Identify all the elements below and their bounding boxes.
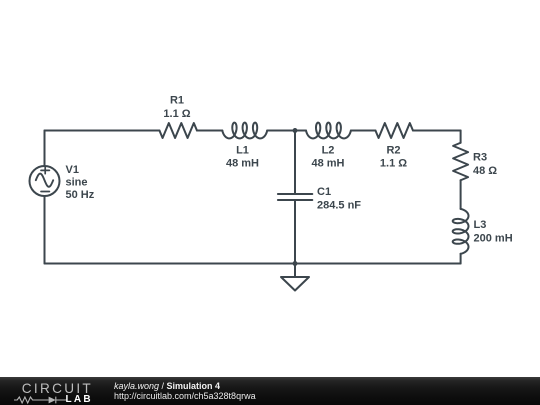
voltage source V1 bbox=[30, 166, 60, 196]
node junction top bbox=[293, 128, 298, 133]
ground bbox=[281, 264, 309, 291]
logo CIRCUIT bbox=[22, 375, 102, 403]
wire right rail upper bbox=[460, 131, 462, 143]
wire C1 to bottom bbox=[294, 200, 296, 264]
svg-text:R2: R2 bbox=[386, 145, 400, 157]
footer text line 1 bbox=[114, 382, 220, 391]
wire node to C1 bbox=[294, 131, 296, 195]
svg-text:200 mH: 200 mH bbox=[474, 233, 513, 245]
wire L3 to bottom corner bbox=[460, 254, 462, 264]
resistor R3 bbox=[453, 143, 468, 181]
svg-text:L3: L3 bbox=[474, 219, 487, 231]
node junction bottom bbox=[293, 261, 298, 266]
inductor L2 bbox=[306, 123, 351, 139]
svg-text:48 mH: 48 mH bbox=[226, 158, 259, 170]
capacitor C1 bbox=[278, 194, 312, 200]
footer text line 2 bbox=[114, 392, 256, 401]
wire R3 to L3 bbox=[460, 180, 462, 209]
svg-text:L2: L2 bbox=[322, 145, 335, 157]
logo LAB bbox=[66, 395, 93, 405]
svg-text:1.1 Ω: 1.1 Ω bbox=[163, 108, 190, 120]
svg-text:1.1 Ω: 1.1 Ω bbox=[380, 158, 407, 170]
resistor R2 bbox=[375, 123, 413, 138]
svg-text:284.5 nF: 284.5 nF bbox=[317, 199, 361, 211]
svg-text:V1: V1 bbox=[66, 164, 79, 176]
svg-text:R3: R3 bbox=[473, 151, 487, 163]
svg-text:R1: R1 bbox=[170, 95, 184, 107]
svg-text:48 Ω: 48 Ω bbox=[473, 165, 497, 177]
svg-text:L1: L1 bbox=[236, 145, 249, 157]
wire L1 to node bbox=[267, 130, 306, 132]
wire left rail lower bbox=[44, 196, 46, 264]
wire R2 to right corner bbox=[413, 130, 461, 132]
svg-text:C1: C1 bbox=[317, 186, 331, 198]
svg-text:50 Hz: 50 Hz bbox=[66, 189, 95, 201]
inductor L1 bbox=[222, 123, 267, 139]
wire left rail upper bbox=[44, 131, 46, 167]
wire bottom rail bbox=[45, 263, 461, 265]
wire L2 to R2 bbox=[351, 130, 376, 132]
svg-text:48 mH: 48 mH bbox=[311, 158, 344, 170]
resistor R1 bbox=[159, 123, 197, 138]
inductor L3 bbox=[453, 209, 469, 254]
wire R1 to L1 bbox=[197, 130, 222, 132]
logo squiggle (resistor + diode) bbox=[14, 395, 67, 405]
svg-text:sine: sine bbox=[66, 177, 88, 189]
wire top-left horizontal bbox=[45, 130, 160, 132]
